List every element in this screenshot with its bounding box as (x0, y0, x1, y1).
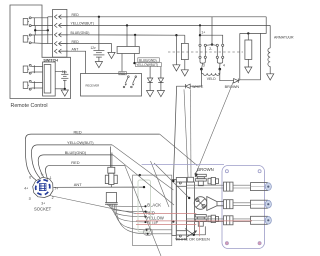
lavender bracket line (142, 163, 224, 165)
remote control box (10, 5, 71, 109)
ground D2 (157, 91, 164, 97)
svg-text:BLUE: BLUE (147, 221, 158, 226)
pink wire vertical (199, 221, 201, 236)
plug body (105, 193, 118, 205)
wire S3 bottom (31, 71, 42, 73)
washer stack top row (208, 177, 219, 184)
fan wire 3 (111, 204, 145, 216)
svg-text:BLUE(GND): BLUE(GND) (65, 150, 87, 155)
wire antenna connector to ANT rail (110, 185, 112, 188)
svg-text:3+: 3+ (41, 201, 45, 205)
wire battery1 drop (98, 17, 100, 51)
svg-text:ANT: ANT (74, 182, 82, 187)
wire button link vertical (34, 26, 36, 35)
wire socket YELLOW curve (32, 145, 113, 178)
bolt circle top (179, 182, 181, 184)
ground R2 (245, 67, 252, 73)
shaft cylinder top (251, 183, 268, 191)
panel hole top left (225, 170, 228, 173)
svg-text:1+: 1+ (201, 30, 205, 34)
ground RED2 (108, 52, 115, 58)
svg-text:WHITE: WHITE (192, 85, 204, 89)
junction dot B (47, 29, 49, 31)
svg-text:RED: RED (72, 13, 80, 17)
wire white branch (190, 69, 201, 86)
panel hole top right (258, 170, 261, 173)
battery B2 12V (61, 70, 68, 89)
wire resistor loop (240, 33, 261, 79)
svg-text:3′: 3′ (29, 197, 32, 201)
relay column lines (200, 46, 223, 56)
connector J1 row3 (54, 33, 68, 37)
diode D2 (158, 78, 163, 83)
pushbutton S3 (23, 64, 34, 74)
wire armature drop (269, 25, 271, 48)
junction dot net labels (133, 62, 135, 64)
assembly boundary box (133, 175, 172, 246)
pink wire B (136, 220, 252, 222)
fan wire 5 (114, 204, 146, 230)
fan terminal dots (144, 205, 148, 235)
wire socket ANT (53, 186, 144, 188)
connector J1 box (53, 9, 67, 57)
wire switch to battery bottom (55, 88, 65, 90)
relay contact circles top row (199, 44, 224, 46)
wire S1 bottom to connector row2 (31, 24, 52, 26)
wire S4 bottom (31, 87, 42, 89)
wire S2 bottom to bus (31, 42, 48, 45)
connector J1 row1 (54, 15, 68, 19)
junction dot A (34, 29, 36, 31)
junction dot RED-battery (98, 16, 100, 18)
wire D2 to ground (160, 83, 162, 91)
junction dot ANT (143, 186, 145, 188)
junction dot battery2 (64, 88, 66, 90)
svg-text:12v: 12v (62, 70, 68, 74)
ground armature (267, 74, 274, 80)
diode D1 (147, 78, 152, 83)
shaft rod mid (233, 203, 251, 206)
shaft end cap top (265, 183, 271, 191)
label YELLOW(BUT) boxed (136, 63, 162, 68)
resistor R2 (245, 40, 252, 59)
wire BLUE ground drop (175, 35, 177, 65)
junction dot BLUE-ground (175, 34, 177, 36)
relay stirrup right (217, 58, 222, 68)
junction dot R2 (247, 32, 249, 34)
fan wire 1 (107, 204, 145, 206)
shaft end cap mid (265, 200, 271, 208)
shaft bushing top (224, 182, 234, 191)
wire armature to ground (269, 66, 271, 73)
junction dot coil right (219, 68, 222, 71)
wire R2 to ground (247, 59, 249, 67)
bolt circle bottom (179, 235, 181, 237)
wire R1 to ground (184, 60, 186, 70)
tie rod top (187, 185, 224, 188)
wire rail YELLOW (61, 24, 270, 26)
wire diagonal RED1 to brown stud (160, 134, 198, 166)
wire R2 top (247, 33, 249, 40)
switch box (43, 59, 59, 96)
receiver box (81, 74, 142, 97)
ground battery2 (61, 90, 68, 96)
diode D3 white (186, 84, 191, 88)
wire diagonal 45deg to coupler dot (154, 163, 189, 198)
wire RED rail corner to loop (240, 17, 266, 34)
battery B1 12V (91, 46, 105, 62)
svg-text:BROWN: BROWN (197, 167, 213, 172)
wire white to motor (173, 86, 185, 181)
wire diagonal BLUE to motor (113, 155, 174, 205)
junction dot YELLOW drop (126, 24, 128, 26)
wire S2 top to connector row3 (31, 34, 52, 36)
wire S1 top to bus (31, 17, 48, 19)
ground battery1 (95, 62, 102, 68)
shaft end cap bottom (265, 217, 271, 225)
wire brown branch (220, 69, 234, 81)
wire socket pin2 diagonal (50, 196, 136, 214)
wire RED rail relay drop (211, 17, 213, 45)
wire bus stub row4 (48, 43, 53, 45)
svg-text:12v: 12v (91, 46, 97, 50)
fan wire 2 (109, 204, 145, 211)
svg-text:RED: RED (71, 160, 79, 165)
junction dot 1+ (199, 34, 201, 36)
antenna connector body (105, 167, 117, 184)
relay contact circles mid row (199, 56, 224, 58)
svg-text:Remote Control: Remote Control (11, 103, 48, 109)
label BLUE(GND) boxed (138, 58, 160, 63)
receiver switch contact 2 (131, 76, 137, 88)
fan wire 4 (113, 204, 145, 222)
shaft bushing mid (224, 200, 234, 209)
socket pin ring (36, 180, 50, 195)
receiver switch contact 1 (123, 76, 129, 88)
socket center key (39, 184, 46, 191)
svg-text:BROWN: BROWN (225, 85, 240, 89)
junction dot relay feed (211, 43, 213, 45)
label RED boxed (119, 71, 127, 75)
wire diagonal YELLOW to motor (112, 145, 173, 190)
wire S4 top (31, 82, 42, 84)
connector J1 row5 (54, 49, 68, 53)
svg-text:4: 4 (223, 63, 225, 67)
wire fan bottom dot 5 to motor (147, 229, 172, 231)
junction dot white-green (193, 234, 195, 236)
wire socket BLUE curve (38, 155, 113, 178)
shaft bushing bottom (224, 216, 234, 225)
junction dot 1+ top (199, 24, 201, 26)
svg-text:YELLOW(BUT): YELLOW(BUT) (71, 22, 95, 26)
motor mid section (187, 182, 195, 235)
tie rod bottom (187, 219, 224, 222)
shaft rod bottom (233, 219, 251, 222)
svg-text:3: 3 (203, 63, 205, 67)
wire white-green terminal L (185, 226, 205, 234)
wire S3 top (31, 66, 42, 68)
wire relay to motor descender 1 (184, 89, 188, 177)
socket outline (33, 177, 53, 197)
wire B1 to receiver left (121, 54, 123, 72)
svg-text:SOCKET: SOCKET (34, 206, 52, 211)
panel hole bottom right (258, 242, 261, 245)
fan wire 6 (116, 204, 147, 234)
shaft cone (207, 197, 224, 211)
motor rear oval (144, 228, 153, 235)
relay stirrup left (200, 58, 205, 68)
shaft cylinder bottom (251, 216, 268, 224)
pushbutton S4 (23, 80, 34, 90)
wire brown diode to motor diagonal (197, 82, 234, 172)
svg-text:BLUE(GND): BLUE(GND) (139, 58, 157, 62)
panel diamond bottom right (258, 241, 262, 245)
wire BLUE drop to B1 (134, 35, 136, 47)
wire relay to motor descender 2 (190, 89, 193, 177)
pale inner bracket (138, 180, 151, 232)
svg-text:RED: RED (72, 40, 80, 44)
relay dashed link (168, 51, 243, 53)
motor body (176, 178, 186, 240)
motor left plate (172, 180, 177, 236)
resistor R1 (181, 43, 188, 59)
antenna lead neck (110, 147, 112, 168)
svg-text:WHITE OR GREEN: WHITE OR GREEN (175, 236, 210, 241)
ground R1 (181, 70, 188, 76)
shaft cylinder mid (251, 200, 268, 208)
svg-text:1: 1 (50, 176, 52, 180)
socket pin numbers (24, 172, 58, 205)
wire D1 to ground (149, 83, 151, 91)
coil VELD (201, 69, 219, 75)
svg-text:ANT: ANT (72, 47, 80, 51)
diode D4 brown (234, 79, 239, 83)
svg-text:YELLOW(BUT): YELLOW(BUT) (136, 63, 158, 67)
wire socket RED curve (26, 134, 160, 180)
svg-text:2-: 2- (209, 47, 212, 51)
terminal stud brown (195, 174, 206, 185)
svg-text:RED: RED (74, 129, 82, 134)
leader white-green (187, 231, 197, 237)
coil armature (268, 48, 270, 66)
pushbutton S1 (23, 17, 34, 27)
svg-text:RECEIVER: RECEIVER (86, 83, 100, 87)
motor junction dots (172, 180, 174, 182)
wire bus vertical (47, 17, 49, 44)
panel diamond bottom left (225, 241, 229, 245)
wire rail RED (61, 16, 266, 18)
wire B1 to net dot (134, 54, 136, 64)
junction dot coil left (200, 68, 203, 71)
washer stack bottom row (208, 215, 219, 222)
wire fan bottom dot 6 to motor (148, 233, 172, 235)
ground BLUE (173, 65, 180, 71)
wire to diode D1 (149, 67, 151, 78)
receiver input box B1 (117, 47, 139, 54)
shaft rod top (233, 185, 251, 188)
pink wire C (136, 223, 196, 225)
terminal stud white-green (195, 215, 206, 227)
wire diagonal RED2 steep (125, 165, 161, 256)
wire switch to battery top (55, 71, 65, 74)
wire YELLOW drop to B1 (126, 25, 128, 46)
wire rail BLUE (61, 34, 185, 36)
connector J1 row2 (54, 23, 68, 27)
svg-text:ARMATUUR: ARMATUUR (274, 35, 294, 39)
wire 1+ drop (199, 25, 201, 44)
lavender panel (222, 166, 265, 249)
shaft coupler (194, 197, 207, 210)
junction dot BLUE drop (134, 34, 136, 36)
wire socket RED2 curve (45, 165, 124, 179)
svg-text:6: 6 (29, 176, 31, 180)
ground D1 (147, 91, 154, 97)
svg-text:BLUE(GND): BLUE(GND) (71, 31, 90, 35)
leader brown (195, 171, 198, 175)
wire diagonal panel steep (151, 161, 170, 207)
wire link to bus (35, 29, 48, 31)
pink wire A (136, 213, 196, 215)
wire bus stub row1 (48, 16, 53, 18)
panel hole bottom left (225, 242, 228, 245)
svg-text:BLACK: BLACK (147, 203, 161, 208)
wire rail RED2 (61, 44, 112, 52)
svg-text:4+: 4+ (24, 186, 28, 190)
wire BLUE to R1 (184, 35, 186, 43)
wire 1+ to right column (200, 35, 223, 44)
junction dot box edge (139, 174, 141, 176)
wire brown diode to loop (238, 79, 240, 82)
pushbutton S2 (23, 34, 34, 44)
svg-text:YELLOW(BUT): YELLOW(BUT) (67, 140, 94, 145)
svg-text:VELD: VELD (207, 77, 216, 81)
wire rail ANT (61, 51, 86, 73)
connector J1 row4 (54, 41, 68, 45)
mid column top tab (187, 177, 193, 182)
relay feed links (206, 44, 216, 47)
wire to diode D2 (160, 67, 162, 78)
